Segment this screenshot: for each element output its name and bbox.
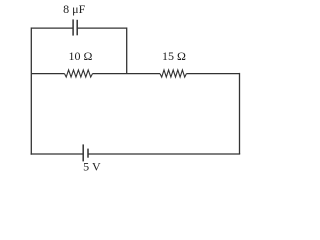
wire: bottom wire left segment	[31, 153, 84, 155]
capacitor C1 8 uF right plate	[76, 20, 78, 36]
svg-text:10 Ω: 10 Ω	[69, 49, 93, 63]
battery V1 short plate (negative)	[87, 149, 89, 158]
capacitor C1 8 uF left plate	[72, 19, 74, 35]
wire: capacitor-loop right vertical drop	[126, 27, 128, 73]
battery V1 long plate (positive)	[82, 144, 84, 161]
wire: top wire right segment	[77, 27, 127, 29]
wire: top wire left segment	[31, 27, 73, 29]
svg-text:15 Ω: 15 Ω	[162, 49, 186, 63]
wire: middle wire left segment	[31, 73, 64, 75]
wire: right vertical	[239, 73, 241, 154]
wire: middle wire center segment	[93, 73, 161, 75]
svg-text:5 V: 5 V	[83, 159, 101, 173]
wire: left vertical upper segment	[30, 27, 32, 73]
resistor R2 15 ohm zigzag	[160, 70, 186, 77]
svg-text:8 μF: 8 μF	[63, 2, 85, 16]
wire: middle wire right segment	[186, 73, 239, 75]
resistor R1 10 ohm zigzag	[65, 70, 93, 77]
wire: left vertical lower segment	[30, 74, 32, 155]
wire: bottom wire right segment	[88, 153, 240, 155]
